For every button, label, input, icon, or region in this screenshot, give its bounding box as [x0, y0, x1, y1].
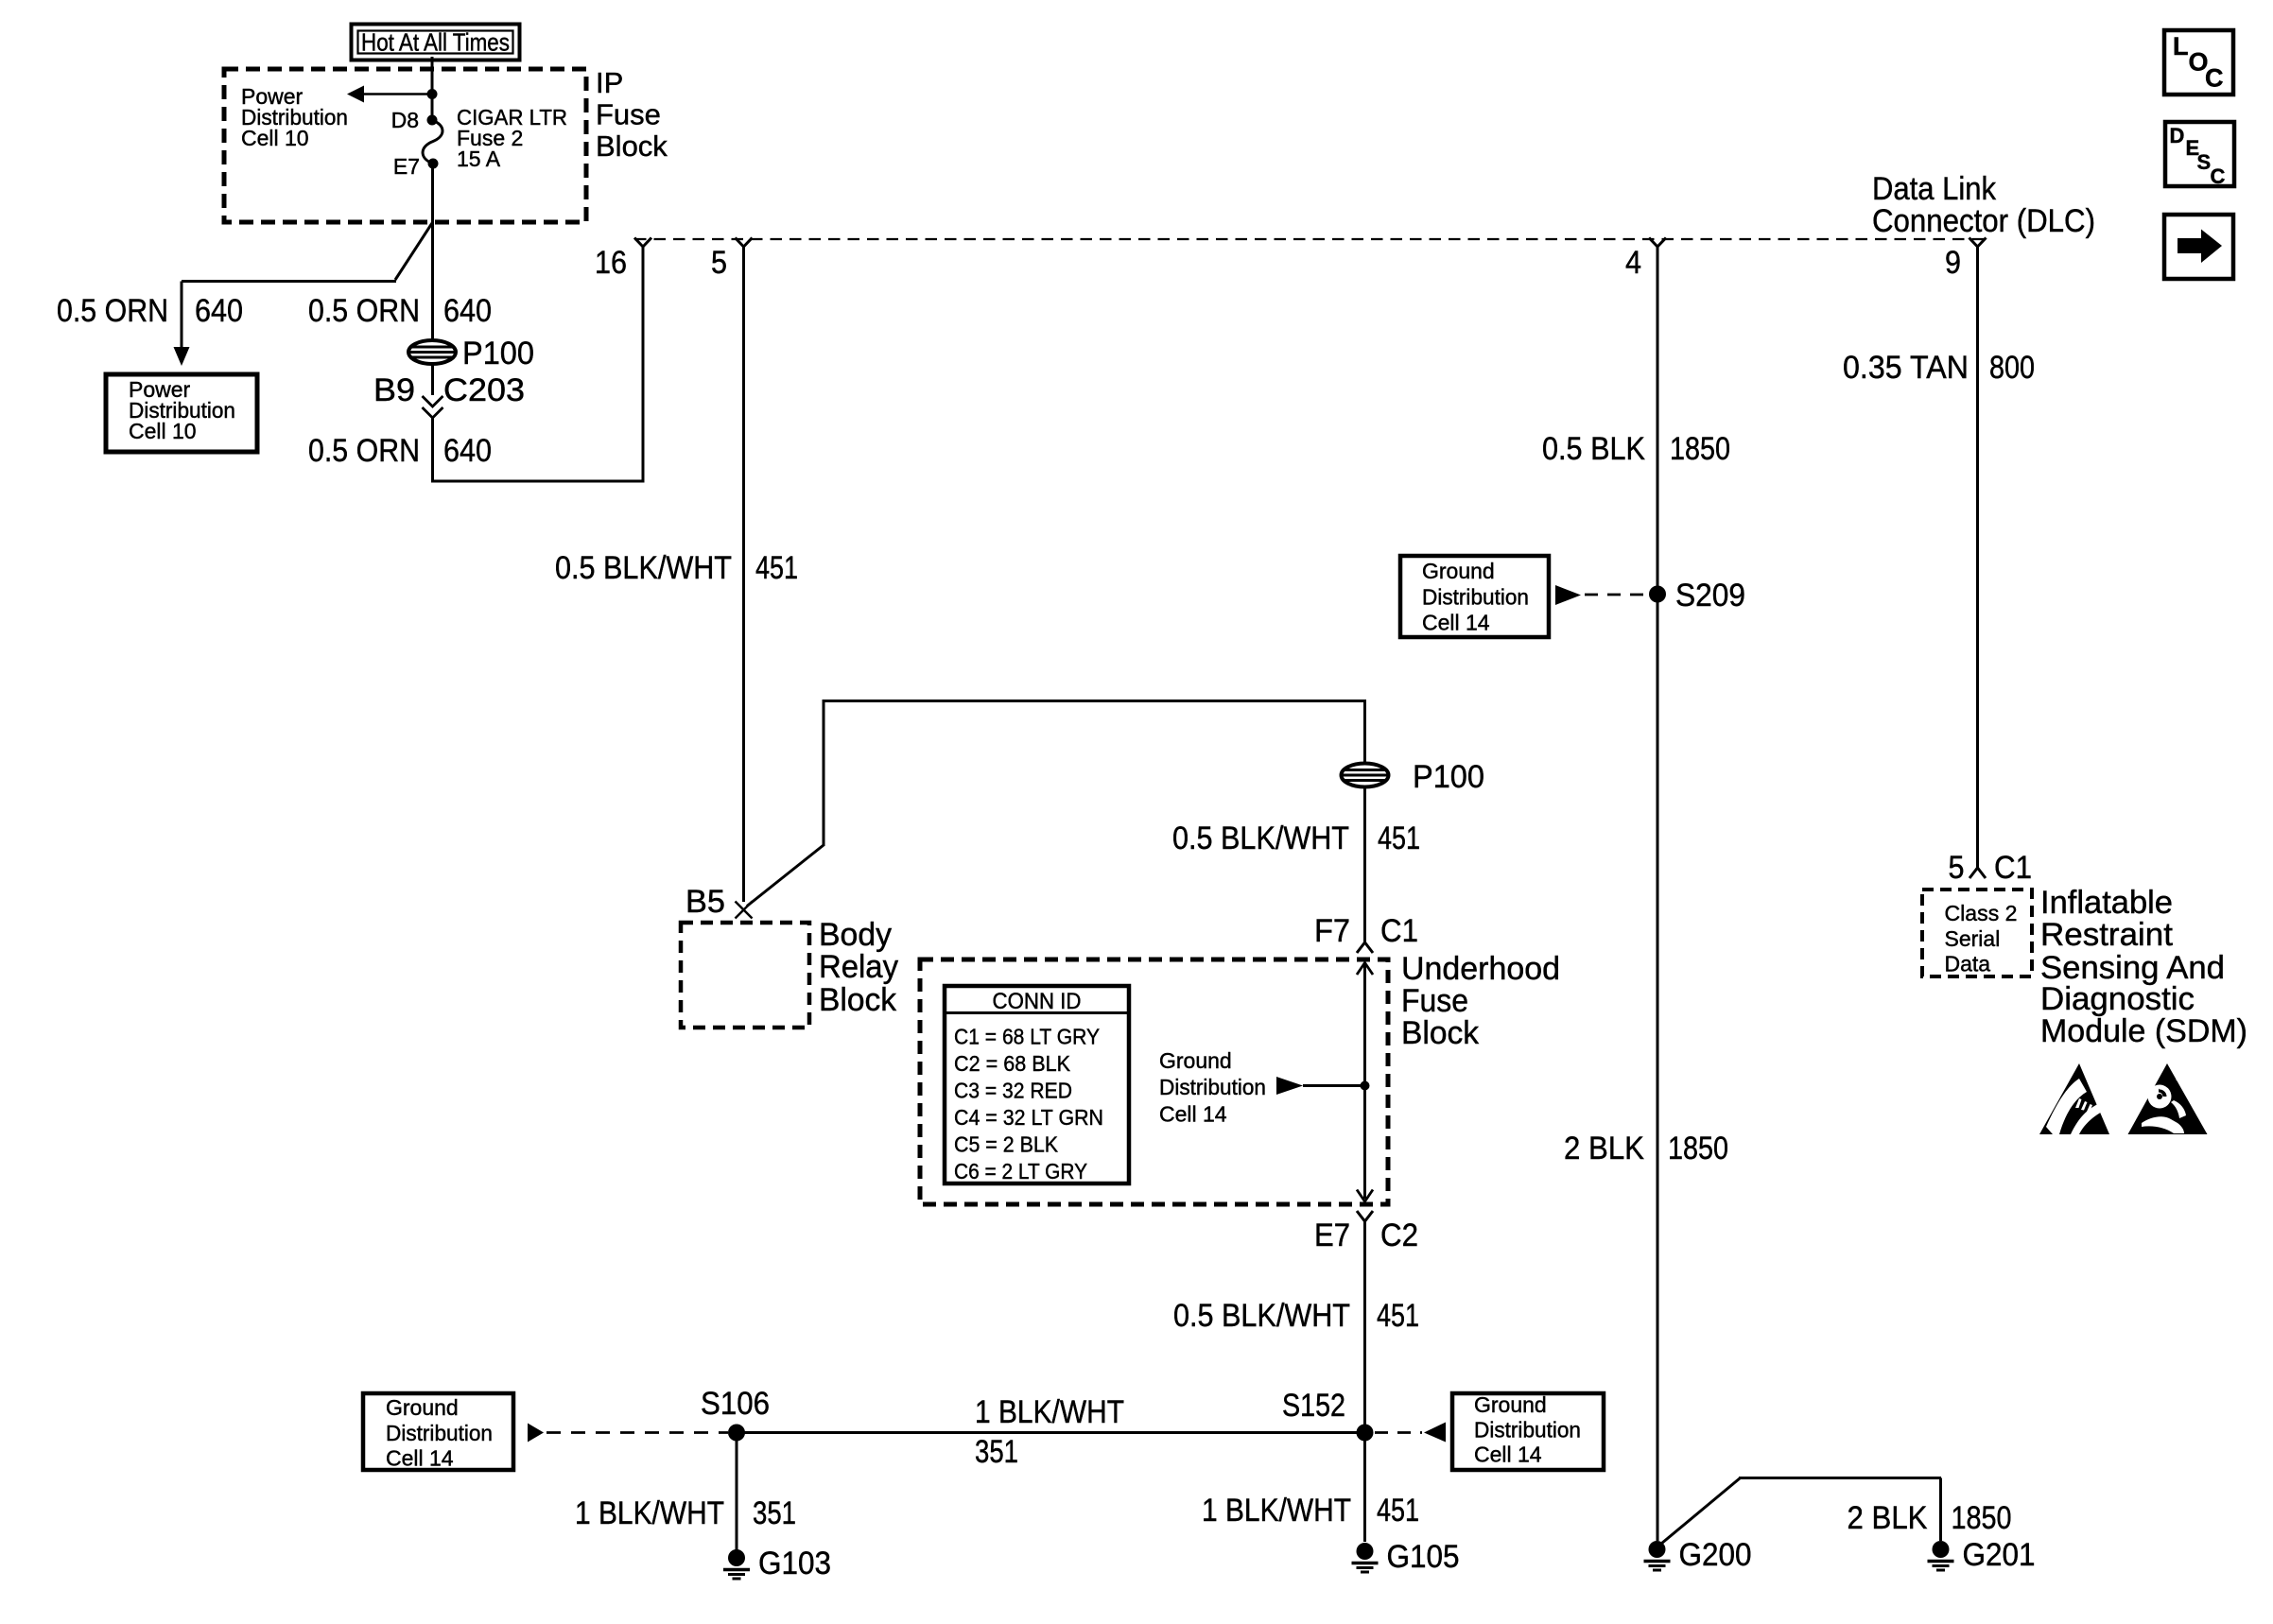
svg-text:Data: Data: [1945, 952, 1991, 976]
junction node at D8 feed: [427, 89, 438, 99]
svg-text:Ground: Ground: [1474, 1392, 1547, 1417]
svg-text:G200: G200: [1679, 1537, 1752, 1573]
svg-text:16: 16: [595, 245, 627, 281]
svg-text:D8: D8: [391, 108, 419, 132]
dashed reference arrow to S152: [1424, 1423, 1446, 1443]
svg-text:451: 451: [1378, 821, 1420, 856]
power feed box "Hot At All Times": [352, 25, 520, 60]
ground G103: [728, 1549, 745, 1566]
wire down from E7 to S152: [1363, 1221, 1366, 1542]
svg-text:S152: S152: [1282, 1388, 1345, 1424]
svg-text:451: 451: [1377, 1493, 1419, 1529]
Underhood Fuse Block dashed outline: [920, 959, 1388, 1204]
svg-text:Distribution: Distribution: [386, 1421, 493, 1445]
svg-text:S: S: [2197, 150, 2212, 174]
wire from B5 diagonal up to header run: [747, 845, 824, 907]
svg-text:1 BLK/WHT: 1 BLK/WHT: [1202, 1493, 1351, 1529]
svg-text:G103: G103: [758, 1546, 831, 1581]
svg-text:B9: B9: [373, 372, 415, 408]
svg-text:15 A: 15 A: [457, 147, 501, 171]
male terminal arrow out of fuse block (down): [1357, 1190, 1373, 1202]
svg-text:C3 = 32 RED: C3 = 32 RED: [954, 1079, 1072, 1103]
terminal B5 x-mark: [736, 902, 753, 919]
IP Fuse Block dashed outline: [224, 69, 586, 222]
svg-text:0.5 BLK/WHT: 0.5 BLK/WHT: [1173, 1298, 1350, 1334]
terminal 5 connector C1 fork (SDM): [1969, 868, 1986, 878]
svg-text:640: 640: [443, 293, 492, 329]
svg-text:C4 = 32 LT GRN: C4 = 32 LT GRN: [954, 1105, 1103, 1130]
svg-text:S106: S106: [701, 1386, 770, 1422]
wire down with arrow into Power Distribution cell: [181, 282, 183, 349]
svg-text:1850: 1850: [1670, 431, 1730, 467]
svg-text:Data Link: Data Link: [1872, 171, 1997, 207]
LOC legend box: [2164, 30, 2233, 95]
svg-text:S209: S209: [1675, 578, 1745, 613]
wire E7 down through fuse block: [431, 164, 434, 341]
terminal E7 connector C2 fork (below fuse block): [1357, 1211, 1373, 1221]
splice S152 node: [1357, 1425, 1374, 1442]
svg-text:Ground: Ground: [1159, 1048, 1232, 1073]
splice S106 node: [728, 1425, 745, 1442]
svg-text:Underhood: Underhood: [1401, 951, 1560, 987]
wire from Hot At All Times into fuse block: [431, 57, 434, 120]
svg-text:Ground: Ground: [1422, 559, 1495, 583]
svg-text:G105: G105: [1387, 1539, 1460, 1575]
svg-text:C: C: [2211, 164, 2226, 188]
svg-text:F7: F7: [1314, 913, 1350, 949]
svg-text:Fuse: Fuse: [596, 98, 661, 131]
DLC pin 16 fork: [634, 238, 651, 248]
male terminal arrow into fuse block (up): [1357, 963, 1373, 976]
ground G200: [1649, 1541, 1666, 1558]
svg-text:451: 451: [755, 550, 798, 586]
svg-text:351: 351: [753, 1495, 796, 1531]
terminal E7 node: [428, 159, 439, 169]
svg-text:0.5 BLK: 0.5 BLK: [1542, 431, 1645, 467]
svg-text:Block: Block: [819, 982, 897, 1018]
fuse CIGAR LTR Fuse 2 15 A: [423, 120, 442, 164]
svg-text:0.5 ORN: 0.5 ORN: [308, 293, 420, 329]
svg-text:2 BLK: 2 BLK: [1848, 1500, 1928, 1536]
dashed reference arrow to S209: [1555, 585, 1581, 605]
svg-text:B5: B5: [685, 884, 725, 920]
svg-text:1 BLK/WHT: 1 BLK/WHT: [575, 1495, 724, 1531]
svg-text:D: D: [2170, 124, 2185, 147]
wire horizontal to left: [182, 280, 396, 283]
wire G201 branch diagonal: [1661, 1478, 1741, 1545]
svg-text:C2: C2: [1380, 1218, 1418, 1253]
svg-text:IP: IP: [596, 66, 623, 99]
svg-text:5: 5: [1949, 850, 1965, 886]
svg-text:351: 351: [975, 1434, 1018, 1470]
DLC pin 4 fork: [1649, 238, 1666, 248]
svg-text:Serial: Serial: [1945, 926, 2001, 951]
svg-text:Restraint: Restraint: [2040, 917, 2174, 953]
Class 2 Serial Data dashed outline: [1922, 890, 2032, 976]
terminal F7 connector C1 fork: [1357, 942, 1373, 953]
Data Link Connector (DLC) dashed connector line: [634, 238, 1990, 240]
svg-text:CONN ID: CONN ID: [993, 989, 1082, 1014]
wire DLC pin5 down to B5: [742, 247, 745, 902]
Power Distribution Cell 10 reference box: [106, 374, 257, 452]
svg-text:Cell 14: Cell 14: [1159, 1102, 1227, 1127]
svg-text:0.5 ORN: 0.5 ORN: [57, 293, 168, 329]
Ground Distribution Cell 14 reference box (S209): [1400, 556, 1549, 637]
svg-text:Distribution: Distribution: [1474, 1418, 1581, 1443]
ground G201: [1933, 1541, 1950, 1558]
svg-text:1 BLK/WHT: 1 BLK/WHT: [975, 1394, 1124, 1430]
ground G105: [1357, 1543, 1374, 1560]
svg-text:4: 4: [1625, 245, 1641, 281]
wire down then right to DLC pin 16: [433, 247, 644, 481]
svg-text:Block: Block: [596, 130, 668, 163]
svg-text:1850: 1850: [1952, 1500, 2012, 1536]
svg-text:Class 2: Class 2: [1945, 901, 2018, 925]
svg-text:Inflatable: Inflatable: [2040, 885, 2173, 921]
wire S106 to S152: [737, 1431, 1365, 1434]
forward arrow legend box: [2164, 215, 2233, 279]
wire below P100 to F7: [1363, 786, 1366, 942]
svg-text:Body: Body: [819, 917, 892, 953]
svg-text:G201: G201: [1963, 1537, 2036, 1573]
svg-text:640: 640: [443, 433, 492, 469]
svg-text:C6 = 2 LT GRY: C6 = 2 LT GRY: [954, 1159, 1087, 1183]
grommet P100 (engine harness pass-through): [1342, 764, 1389, 787]
Ground Distribution Cell 14 reference box (left): [363, 1393, 513, 1470]
svg-text:Cell 14: Cell 14: [1422, 611, 1490, 635]
arrow from ground distribution reference to wire: [1276, 1077, 1303, 1095]
wire DLC pin 4 down to G200: [1657, 247, 1659, 1541]
svg-text:0.35 TAN: 0.35 TAN: [1843, 350, 1969, 386]
svg-text:L: L: [2173, 32, 2189, 60]
wire header run right to P100: [824, 700, 1366, 702]
svg-text:Module (SDM): Module (SDM): [2040, 1013, 2247, 1049]
svg-text:C1: C1: [1380, 913, 1418, 949]
Ground Distribution Cell 14 reference box (right): [1452, 1393, 1604, 1470]
wire DLC pin 9 down to SDM: [1976, 247, 1979, 868]
CONN ID table: [945, 986, 1129, 1183]
svg-text:Block: Block: [1401, 1015, 1480, 1051]
svg-text:P100: P100: [462, 336, 534, 371]
DLC pin 9 fork: [1969, 238, 1987, 248]
svg-text:Cell 14: Cell 14: [1474, 1443, 1542, 1467]
svg-text:1850: 1850: [1668, 1131, 1728, 1166]
arrow to Power Distribution Cell 10 (left): [362, 93, 432, 95]
svg-text:Hot At All Times: Hot At All Times: [361, 28, 510, 57]
svg-text:C2 = 68 BLK: C2 = 68 BLK: [954, 1051, 1070, 1076]
svg-text:Fuse: Fuse: [1401, 983, 1468, 1019]
SIR airbag warning triangle: [2128, 1063, 2208, 1134]
svg-text:0.5 BLK/WHT: 0.5 BLK/WHT: [1172, 821, 1349, 856]
svg-text:E7: E7: [393, 154, 420, 179]
svg-text:C1: C1: [1994, 850, 2032, 886]
svg-text:Distribution: Distribution: [1159, 1075, 1266, 1099]
svg-text:C1 = 68 LT GRY: C1 = 68 LT GRY: [954, 1025, 1100, 1049]
svg-text:Cell 10: Cell 10: [241, 126, 309, 150]
svg-text:Diagnostic: Diagnostic: [2040, 981, 2195, 1017]
svg-text:C203: C203: [443, 372, 525, 408]
dashed reference arrow to S106: [528, 1424, 544, 1443]
wire S106 down to G103: [736, 1433, 738, 1551]
DESC legend box: [2165, 122, 2234, 186]
svg-text:Cell 14: Cell 14: [386, 1446, 454, 1471]
grommet P100 (IP harness pass-through): [408, 340, 456, 364]
svg-text:451: 451: [1377, 1298, 1419, 1334]
svg-text:Relay: Relay: [819, 949, 898, 985]
DLC pin 5 fork: [736, 238, 753, 248]
svg-text:Connector (DLC): Connector (DLC): [1872, 203, 2095, 239]
svg-text:0.5 ORN: 0.5 ORN: [308, 433, 420, 469]
svg-text:5: 5: [711, 245, 727, 281]
svg-text:2 BLK: 2 BLK: [1564, 1131, 1644, 1166]
svg-text:0.5 BLK/WHT: 0.5 BLK/WHT: [555, 550, 732, 586]
splice S209 node: [1649, 586, 1666, 603]
wire below P100: [431, 364, 434, 396]
svg-text:9: 9: [1945, 245, 1961, 281]
terminal D8 node: [427, 115, 438, 126]
svg-text:800: 800: [1989, 350, 2035, 386]
wire branch diagonal to left power distribution: [395, 223, 432, 280]
svg-text:Cell 10: Cell 10: [129, 419, 197, 443]
svg-text:Distribution: Distribution: [1422, 585, 1529, 610]
junction node in fuse block: [1361, 1081, 1370, 1091]
svg-text:C: C: [2205, 64, 2224, 93]
svg-text:E7: E7: [1314, 1218, 1350, 1253]
svg-text:640: 640: [195, 293, 243, 329]
svg-text:P100: P100: [1413, 759, 1484, 795]
svg-text:C5 = 2 BLK: C5 = 2 BLK: [954, 1132, 1058, 1157]
Body Relay Block dashed outline: [681, 923, 809, 1028]
svg-text:Ground: Ground: [386, 1395, 459, 1420]
ESD-sensitive warning triangle: [2039, 1063, 2109, 1134]
